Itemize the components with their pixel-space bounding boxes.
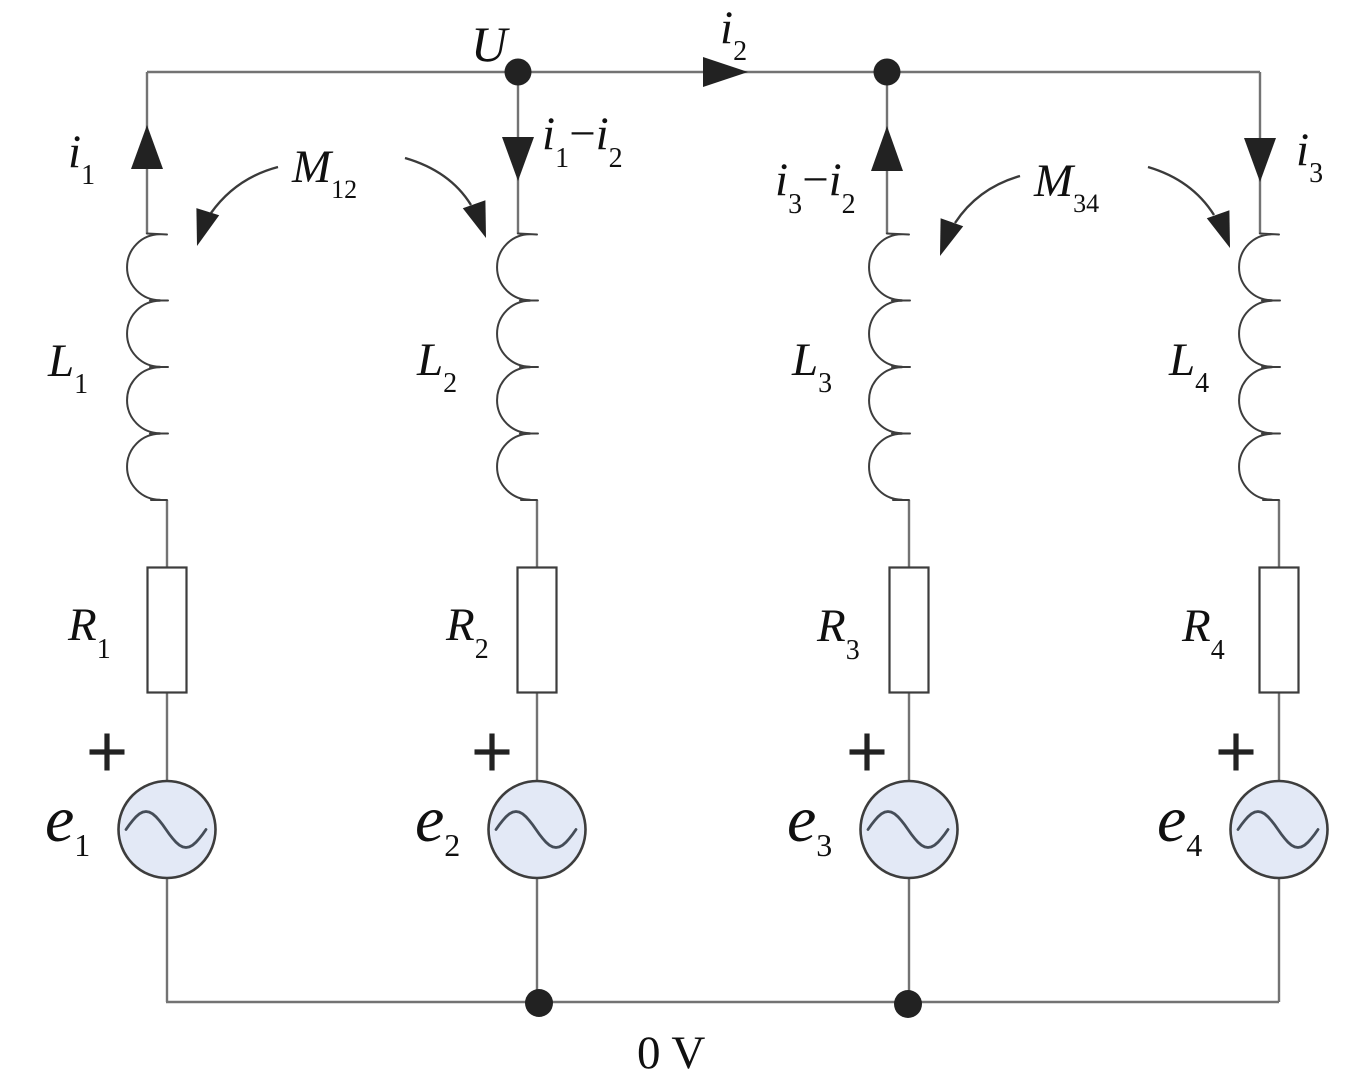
wire branch3 e3-to-rail — [908, 878, 910, 1002]
svg-text:R2: R2 — [445, 599, 489, 665]
resistor R2 — [518, 568, 557, 693]
current arrow i3-i2 (up) — [871, 126, 903, 171]
resistor R4 — [1260, 568, 1299, 693]
svg-text:e2: e2 — [415, 783, 460, 863]
AC source e3 sine wave — [868, 812, 948, 848]
wire branch4 coil-to-R4 — [1278, 500, 1280, 568]
wire branch3 coil-to-R3 — [908, 500, 910, 568]
svg-text:R1: R1 — [67, 599, 111, 665]
svg-text:M34: M34 — [1033, 155, 1099, 218]
wire top horizontal — [147, 71, 1260, 73]
wire bottom horizontal (0 V rail) — [166, 1001, 1279, 1003]
polarity plus sign of e1 — [90, 734, 125, 771]
curved arrow M34 left — [940, 176, 1020, 256]
svg-text:L3: L3 — [791, 334, 832, 399]
current arrow i1 (up) — [131, 125, 163, 169]
wire branch2 top vertical — [517, 72, 519, 234]
wire branch2 R2-to-e2 — [536, 692, 538, 781]
svg-text:e3: e3 — [787, 783, 832, 863]
inductor L1 — [127, 234, 168, 501]
node bottom-right junction dot — [894, 990, 922, 1018]
polarity plus sign of e3 — [850, 734, 885, 771]
svg-text:e4: e4 — [1157, 783, 1202, 863]
polarity plus sign of e4 — [1219, 734, 1254, 771]
current arrow i3 (down) — [1244, 138, 1276, 182]
wire branch3 R3-to-e3 — [908, 692, 910, 781]
wire branch4 R4-to-e4 — [1278, 692, 1280, 781]
svg-text:R3: R3 — [816, 600, 860, 666]
svg-text:R4: R4 — [1181, 600, 1225, 666]
wire branch1 coil-to-R1 — [166, 500, 168, 568]
svg-text:U: U — [471, 16, 510, 72]
svg-text:i3: i3 — [1296, 124, 1323, 189]
wire branch3 top vertical — [886, 72, 888, 234]
polarity plus sign of e2 — [475, 734, 510, 771]
wire branch4 e4-to-rail — [1278, 878, 1280, 1002]
wire branch1 e1-to-rail — [166, 878, 168, 1002]
AC source e4 circle — [1231, 781, 1328, 878]
node bottom-left junction dot — [525, 989, 553, 1017]
svg-text:i1−i2: i1−i2 — [542, 108, 623, 174]
inductor L3 — [869, 234, 910, 501]
svg-text:i3−i2: i3−i2 — [775, 154, 856, 220]
wire branch2 e2-to-rail — [536, 878, 538, 1002]
node top-right junction dot — [874, 59, 901, 86]
svg-text:i2: i2 — [720, 2, 747, 67]
svg-text:e1: e1 — [45, 783, 90, 863]
svg-text:M12: M12 — [291, 141, 357, 204]
svg-text:0 V: 0 V — [637, 1027, 705, 1079]
svg-text:L4: L4 — [1168, 334, 1209, 399]
inductor L2 — [497, 234, 538, 501]
AC source e2 circle — [489, 781, 586, 878]
svg-text:L2: L2 — [416, 334, 457, 399]
curved arrow M34 right — [1148, 167, 1230, 248]
AC source e2 sine wave — [496, 812, 576, 848]
AC source e3 circle — [861, 781, 958, 878]
svg-text:i1: i1 — [68, 126, 95, 191]
resistor R1 — [148, 568, 187, 693]
AC source e1 sine wave — [126, 812, 206, 848]
svg-text:L1: L1 — [47, 335, 88, 400]
inductor L4 — [1239, 234, 1280, 501]
wire branch2 coil-to-R2 — [536, 500, 538, 568]
curved arrow M12 right — [405, 158, 486, 238]
node U junction dot — [505, 59, 532, 86]
curved arrow M12 left — [196, 167, 278, 246]
current arrow i2 (right) — [703, 57, 748, 87]
current arrow i1-i2 (down) — [502, 137, 534, 181]
AC source e4 sine wave — [1238, 812, 1318, 848]
resistor R3 — [890, 568, 929, 693]
AC source e1 circle — [119, 781, 216, 878]
wire branch4 top vertical — [1259, 72, 1261, 234]
wire branch1 R1-to-e1 — [166, 692, 168, 781]
wire branch1 top vertical — [146, 72, 148, 234]
